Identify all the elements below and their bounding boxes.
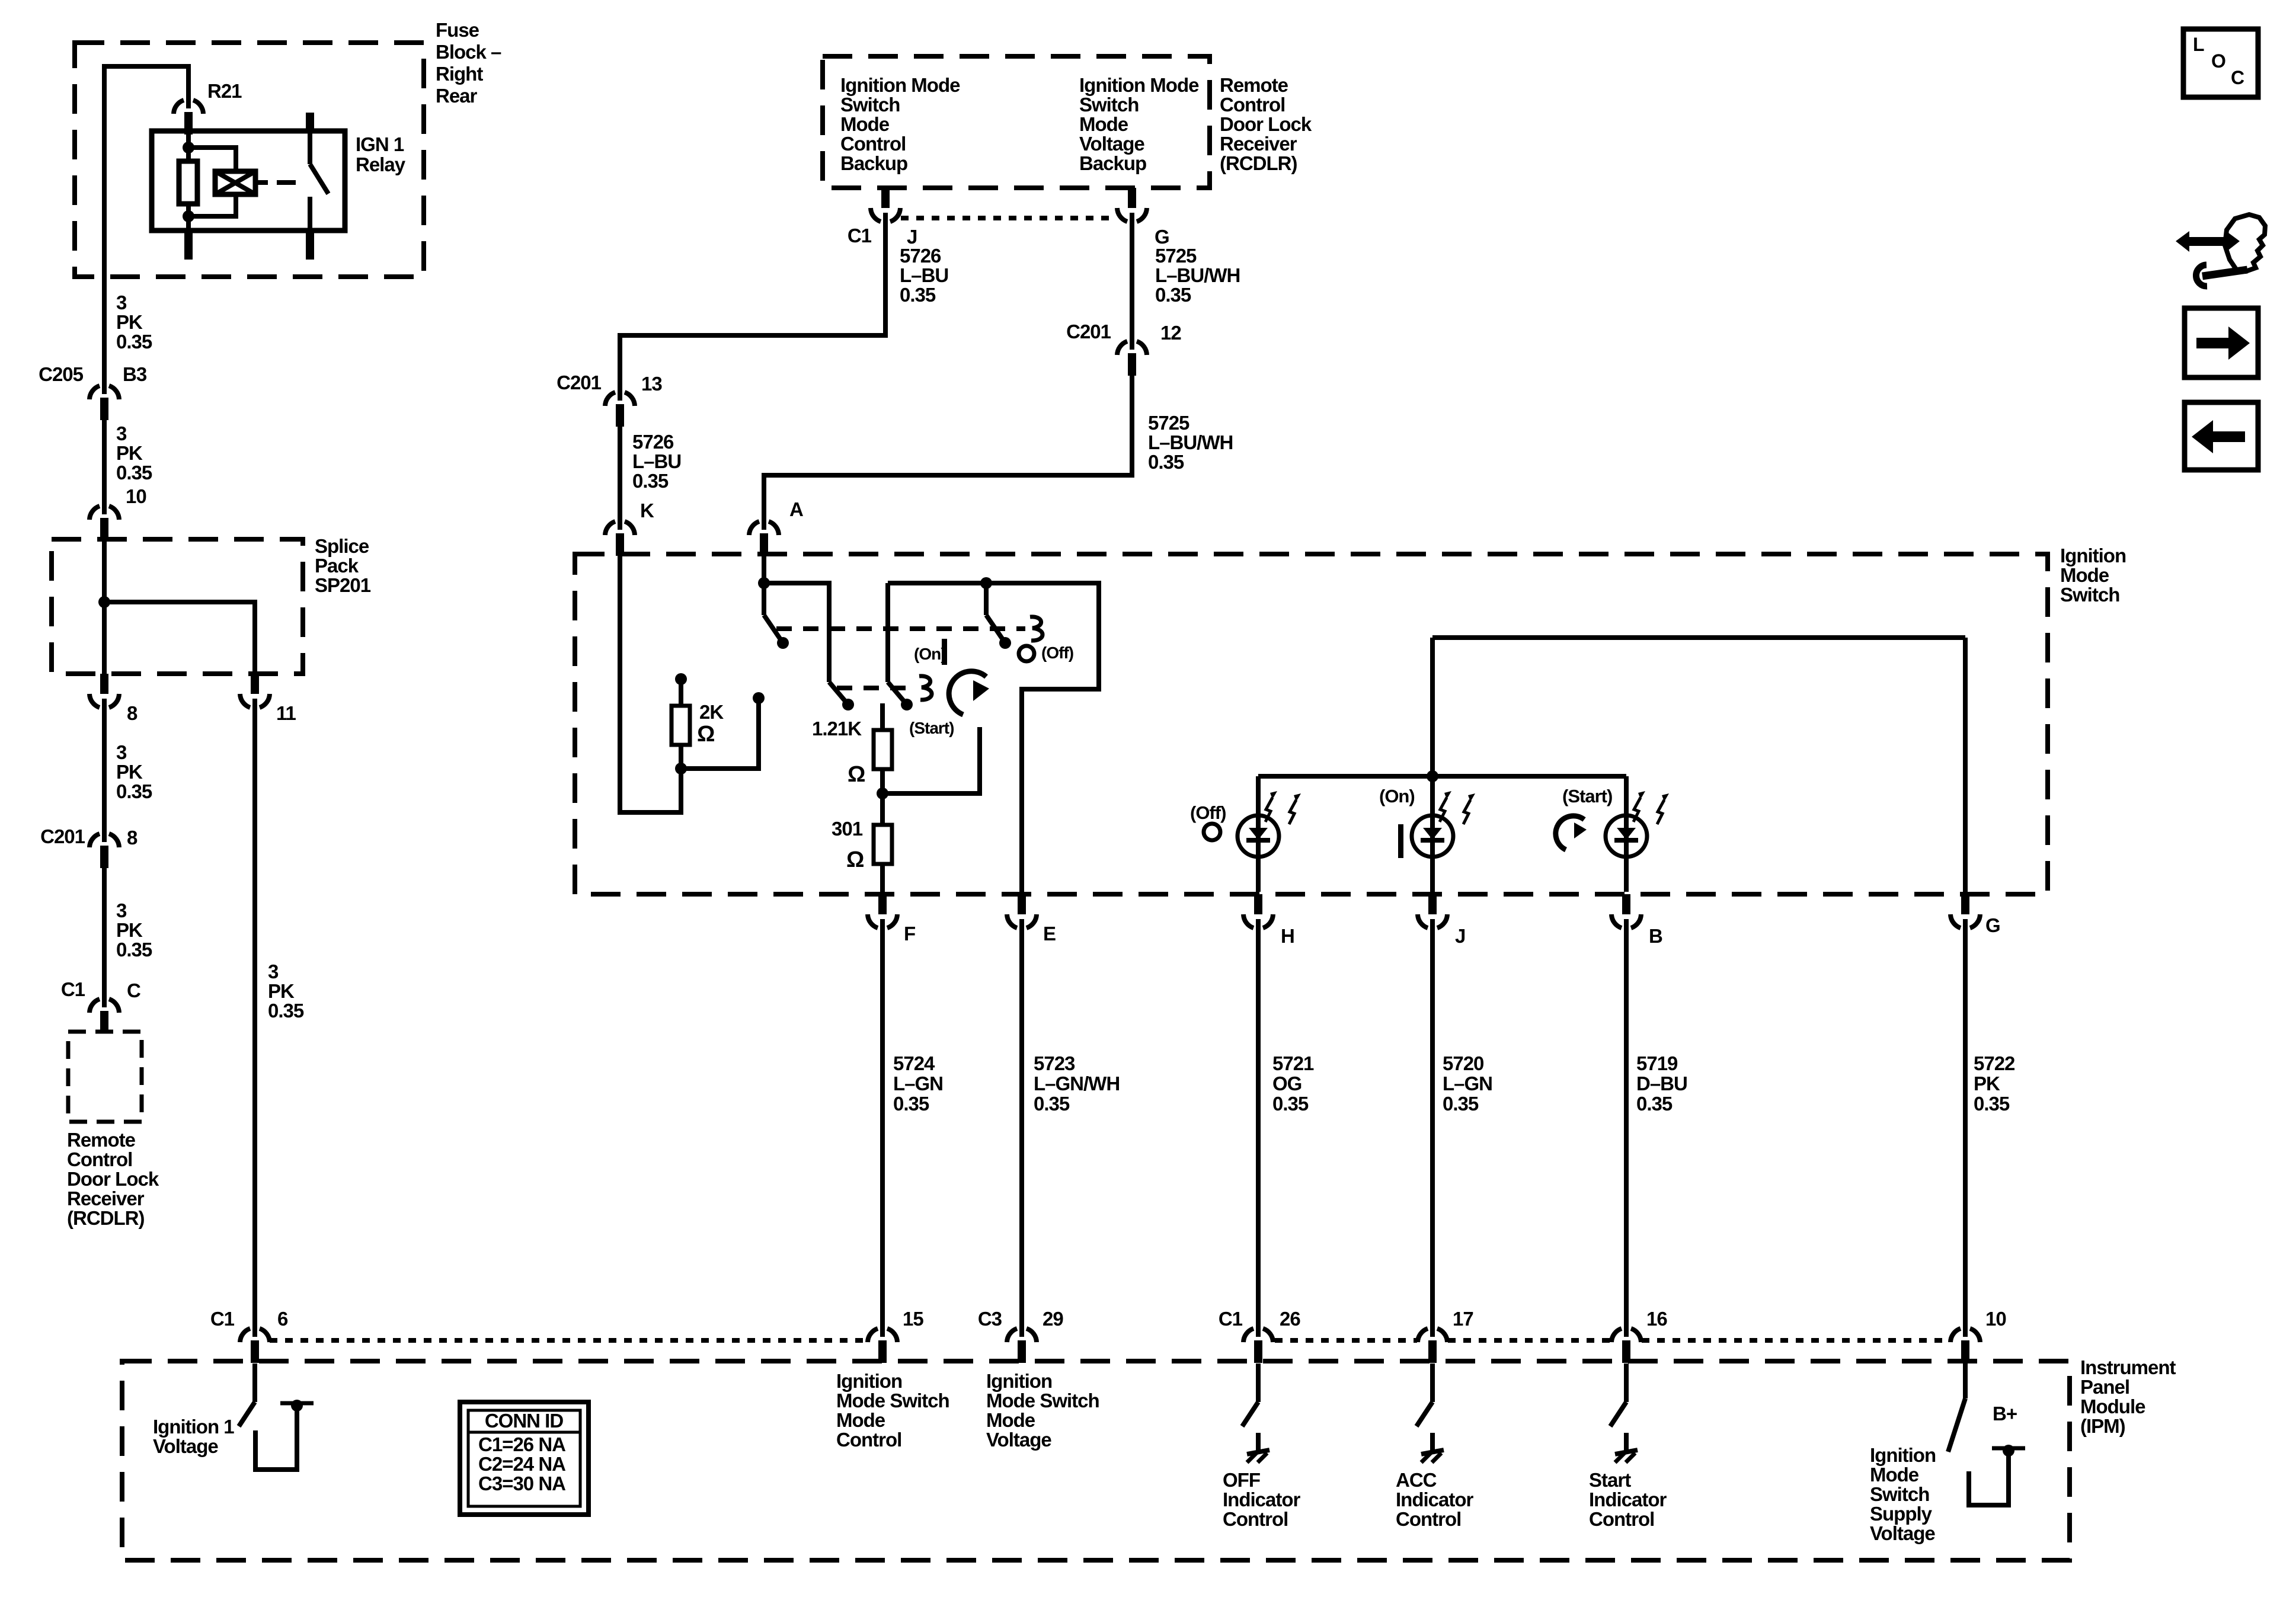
connector C1 pin 26 (IPM) — [1243, 1329, 1253, 1342]
connector pin E — [1018, 894, 1026, 914]
wire into fuse R21 — [186, 64, 191, 101]
svg-text:0.35: 0.35 — [116, 780, 152, 802]
connector pin K (ignition mode switch) — [605, 521, 615, 535]
resistor 2K — [671, 706, 690, 745]
svg-text:L–BU: L–BU — [900, 264, 948, 286]
svg-text:26: 26 — [1280, 1308, 1300, 1330]
svg-text:Ignition: Ignition — [2060, 545, 2126, 566]
svg-text:C1: C1 — [848, 225, 872, 247]
svg-text:Control: Control — [67, 1148, 132, 1170]
svg-text:L–BU/WH: L–BU/WH — [1148, 431, 1233, 453]
connector C201 pin 8 — [89, 834, 100, 847]
svg-text:8: 8 — [127, 702, 137, 724]
wire G leg down — [1963, 638, 1968, 892]
svg-text:0.35: 0.35 — [1148, 451, 1184, 473]
svg-text:5721: 5721 — [1272, 1052, 1314, 1074]
svg-text:OFF: OFF — [1223, 1469, 1260, 1491]
svg-text:Backup: Backup — [840, 152, 907, 174]
svg-text:(RCDLR): (RCDLR) — [1220, 152, 1297, 174]
svg-text:L: L — [2193, 34, 2204, 55]
svg-text:0.35: 0.35 — [116, 939, 152, 961]
svg-text:B3: B3 — [123, 363, 147, 385]
svg-text:PK: PK — [1974, 1073, 2000, 1094]
svg-text:11: 11 — [276, 702, 296, 724]
svg-text:L–GN: L–GN — [1443, 1073, 1492, 1094]
ACC indicator switch arm — [1416, 1402, 1432, 1426]
wire 5724 F to 15 — [880, 926, 885, 1329]
svg-text:Control: Control — [1223, 1508, 1288, 1530]
relay coil armature stub — [255, 180, 268, 185]
svg-text:H: H — [1281, 925, 1294, 947]
2K resistor bottom lead — [679, 745, 683, 769]
wire 5721 H to 26 — [1256, 926, 1261, 1329]
connector C201 pin 13 — [605, 392, 615, 406]
wire from R21 fuse to C205 feed (top horizontal + left vertical) — [104, 66, 188, 386]
svg-text:Receiver: Receiver — [67, 1188, 145, 1209]
mech link lower spring symbol — [919, 676, 932, 700]
svg-text:3: 3 — [268, 961, 279, 982]
svg-text:Voltage: Voltage — [986, 1429, 1051, 1451]
(Off) position circle — [1019, 646, 1034, 661]
relay node bottom junction — [183, 210, 194, 222]
ignition 1 voltage contact dot — [291, 1400, 303, 1411]
LED supply top wire — [1432, 635, 1965, 640]
svg-text:C1=26 NA: C1=26 NA — [478, 1433, 565, 1455]
relay coil bottom branch wire — [188, 193, 236, 216]
svg-text:C2=24 NA: C2=24 NA — [478, 1453, 565, 1475]
Off LED light arrows — [1265, 798, 1272, 822]
ignition 1 voltage contact wire — [255, 1407, 297, 1470]
Start indicator switch wire — [1624, 1363, 1629, 1402]
next-page arrow box — [2185, 308, 2258, 377]
CONN ID table — [460, 1402, 589, 1515]
svg-text:0.35: 0.35 — [116, 331, 152, 353]
svg-text:Mode: Mode — [836, 1409, 885, 1431]
LOC reference box — [2183, 29, 2258, 97]
wire pin 11 to IPM C1-6 — [252, 705, 257, 1329]
svg-text:Instrument: Instrument — [2080, 1356, 2176, 1378]
svg-text:Block –: Block – — [436, 41, 501, 63]
relay pin stub bottom-left — [184, 231, 193, 260]
(Start) LED rotation icon — [1556, 816, 1584, 850]
301 bottom lead to pin F — [880, 864, 885, 892]
connector pin 11 (below splice pack) — [251, 674, 259, 694]
svg-text:Voltage: Voltage — [1870, 1522, 1935, 1544]
wire A junction to arm2 pivot — [764, 583, 829, 682]
svg-text:Mode: Mode — [2060, 564, 2109, 586]
svg-text:5725: 5725 — [1148, 412, 1189, 434]
svg-text:Voltage: Voltage — [1079, 133, 1144, 155]
svg-text:301: 301 — [832, 818, 863, 840]
svg-text:Switch: Switch — [840, 94, 900, 116]
svg-text:PK: PK — [116, 311, 143, 333]
svg-text:Ignition: Ignition — [1870, 1444, 1936, 1466]
wire 2K junction to stationary contact — [681, 700, 759, 769]
(On) LED bar icon — [1398, 824, 1403, 858]
supply voltage switch arm — [1948, 1398, 1965, 1452]
svg-text:C: C — [127, 980, 140, 1001]
svg-text:(RCDLR): (RCDLR) — [67, 1207, 144, 1229]
arm 1 contact dot — [777, 637, 789, 649]
svg-text:5722: 5722 — [1974, 1052, 2015, 1074]
supply voltage switch wire — [1963, 1363, 1968, 1398]
(Off) LED circle icon — [1204, 824, 1220, 840]
svg-text:C1: C1 — [210, 1308, 235, 1330]
Off LED wire — [1256, 776, 1261, 892]
wire pin 8 to C201 — [102, 705, 107, 834]
OFF indicator ground — [1256, 1433, 1261, 1451]
svg-text:PK: PK — [116, 761, 143, 783]
svg-text:E: E — [1043, 923, 1056, 945]
connector pin A (ignition mode switch) — [749, 521, 759, 535]
svg-text:8: 8 — [127, 827, 137, 849]
Start indicator ground — [1624, 1433, 1629, 1451]
wire 5725 from G to C201-12 — [1130, 220, 1134, 342]
svg-text:3: 3 — [116, 292, 127, 313]
relay resistor bottom wire — [186, 204, 191, 231]
svg-text:F: F — [904, 923, 915, 945]
prev-page arrow box — [2185, 402, 2258, 470]
connector pin 10 (IPM) — [1950, 1329, 1961, 1342]
connector C201 pin 12 — [1117, 341, 1127, 355]
wire A into switch — [762, 554, 766, 583]
svg-text:0.35: 0.35 — [1443, 1093, 1479, 1115]
IPM connector dotted line (C1 right a) — [1275, 1338, 1417, 1343]
svg-text:Mode: Mode — [1079, 113, 1128, 135]
svg-text:L–BU/WH: L–BU/WH — [1155, 264, 1240, 286]
svg-text:Voltage: Voltage — [153, 1435, 218, 1457]
fuse R21 connector — [174, 100, 184, 114]
resistor 1.21K — [874, 730, 892, 769]
LED rail junction — [1427, 770, 1438, 782]
svg-text:Indicator: Indicator — [1396, 1489, 1474, 1510]
svg-text:(On): (On) — [914, 645, 946, 663]
svg-text:Mode: Mode — [840, 113, 890, 135]
svg-text:PK: PK — [268, 980, 295, 1002]
svg-text:C3: C3 — [978, 1308, 1002, 1330]
svg-text:Rear: Rear — [436, 85, 478, 107]
svg-text:C201: C201 — [557, 372, 602, 393]
OFF indicator switch wire — [1256, 1363, 1261, 1402]
svg-text:Relay: Relay — [356, 153, 406, 175]
svg-text:10: 10 — [126, 485, 146, 507]
RCDLR backup box (dashed) — [823, 56, 1210, 188]
svg-text:10: 10 — [1985, 1308, 2006, 1330]
svg-text:Control: Control — [1589, 1508, 1654, 1530]
connector pin 15 (IPM) — [868, 1329, 878, 1342]
hand/wrench icon — [2225, 215, 2265, 271]
LED anode rail — [1258, 774, 1626, 779]
svg-text:(Off): (Off) — [1190, 802, 1226, 823]
Off indicator LED — [1237, 815, 1279, 857]
svg-text:R21: R21 — [207, 80, 242, 102]
switch arm 3 (mode voltage) — [888, 682, 907, 705]
wire 5726 to pin K — [618, 425, 622, 522]
svg-text:5720: 5720 — [1443, 1052, 1483, 1074]
wire 5723 E to 29 — [1019, 926, 1024, 1329]
Start indicator switch arm — [1610, 1402, 1626, 1426]
wire 5719 B to 16 — [1624, 926, 1629, 1329]
svg-text:3: 3 — [116, 741, 127, 763]
svg-text:15: 15 — [903, 1308, 923, 1330]
connector pin 8 (below splice pack) — [100, 674, 108, 694]
connector pin B — [1622, 894, 1630, 914]
connector C1 pin 6 (IPM) — [240, 1329, 250, 1342]
svg-text:O: O — [2211, 50, 2225, 72]
svg-text:SP201: SP201 — [315, 574, 371, 596]
B+ contact wire — [1969, 1453, 2009, 1505]
On LED wire — [1430, 776, 1435, 892]
svg-text:0.35: 0.35 — [632, 470, 669, 492]
svg-text:Switch: Switch — [1870, 1483, 1929, 1505]
svg-text:Ignition Mode: Ignition Mode — [840, 74, 960, 96]
svg-text:CONN ID: CONN ID — [485, 1410, 564, 1432]
resistor 301 — [874, 825, 892, 864]
svg-text:(Start): (Start) — [909, 719, 954, 737]
Start LED wire — [1624, 776, 1629, 892]
switch arm 2 (mode control) — [829, 682, 848, 705]
wire 5720 J to 17 — [1430, 926, 1435, 1329]
svg-text:C: C — [2231, 67, 2244, 88]
svg-text:L–GN/WH: L–GN/WH — [1034, 1073, 1120, 1094]
svg-text:B+: B+ — [1993, 1403, 2017, 1425]
connector C205 pin B3 — [89, 386, 100, 399]
svg-text:Indicator: Indicator — [1589, 1489, 1667, 1510]
connector pin F — [878, 894, 887, 914]
svg-text:Mode: Mode — [1870, 1464, 1919, 1486]
ignition mode switch box (dashed) — [575, 554, 2048, 894]
Off switch pivot wire — [984, 583, 989, 615]
svg-text:Switch: Switch — [2060, 584, 2119, 606]
svg-text:Pack: Pack — [315, 555, 359, 577]
svg-text:0.35: 0.35 — [1155, 284, 1191, 306]
svg-text:0.35: 0.35 — [893, 1093, 929, 1115]
relay coil top branch wire — [188, 148, 236, 172]
Start indicator LED — [1606, 815, 1647, 857]
svg-text:Right: Right — [436, 63, 483, 85]
connector pin 16 (IPM) — [1611, 1329, 1622, 1342]
svg-text:Supply: Supply — [1870, 1503, 1933, 1525]
svg-text:Control: Control — [1396, 1508, 1461, 1530]
relay switch contact wire — [308, 197, 312, 231]
B+ contact dot — [2003, 1445, 2014, 1457]
resistor 1.21K top lead — [880, 703, 885, 730]
relay node top junction — [183, 142, 194, 153]
svg-text:C1: C1 — [1219, 1308, 1243, 1330]
connector pin H — [1254, 894, 1262, 914]
svg-text:12: 12 — [1160, 322, 1181, 344]
svg-text:C1: C1 — [61, 978, 85, 1000]
svg-text:3: 3 — [116, 900, 127, 921]
svg-text:0.35: 0.35 — [1034, 1093, 1070, 1115]
IPM connector dotted line (C1 right b) — [1448, 1338, 1611, 1343]
connector C3 pin 29 (IPM) — [1007, 1329, 1017, 1342]
svg-text:0.35: 0.35 — [1974, 1093, 2010, 1115]
svg-text:3: 3 — [116, 422, 127, 444]
svg-text:L–BU: L–BU — [632, 450, 681, 472]
svg-text:Ignition Mode: Ignition Mode — [1079, 74, 1199, 96]
wire loop left leg down — [885, 583, 890, 682]
svg-text:(Off): (Off) — [1041, 644, 1073, 662]
svg-text:0.35: 0.35 — [116, 462, 152, 484]
ignition 1 voltage switch wire — [252, 1363, 257, 1402]
svg-text:Control: Control — [840, 133, 906, 155]
IPM connector dotted line (C1 right c) — [1642, 1338, 1950, 1343]
wire 5726 from J to C201-13 — [620, 220, 885, 393]
mech link dashed upper — [776, 626, 1025, 631]
svg-text:Ω: Ω — [848, 762, 865, 787]
On LED light arrows — [1440, 798, 1447, 822]
IGN 1 relay box — [152, 131, 345, 231]
svg-text:Remote: Remote — [1220, 74, 1288, 96]
svg-text:5726: 5726 — [632, 431, 674, 453]
instrument panel module box (dashed) — [122, 1361, 2070, 1560]
svg-text:Door Lock: Door Lock — [67, 1168, 159, 1190]
wire C205 to pin 10 — [102, 418, 107, 507]
splice pack SP201 (dashed box) — [52, 539, 303, 674]
connector pin G (RCDLR) — [1128, 188, 1136, 208]
svg-text:0.35: 0.35 — [1272, 1093, 1309, 1115]
arm 3 contact dot — [901, 699, 913, 710]
Start LED light arrows — [1633, 798, 1641, 822]
svg-text:Receiver: Receiver — [1220, 133, 1297, 155]
svg-text:1.21K: 1.21K — [812, 718, 862, 740]
wire A junction down — [762, 583, 766, 615]
svg-text:Ignition 1: Ignition 1 — [153, 1416, 234, 1438]
ignition 1 voltage contact bar — [280, 1401, 314, 1406]
relay coil (box with X) — [215, 171, 255, 194]
svg-text:0.35: 0.35 — [268, 1000, 304, 1022]
On indicator LED — [1412, 815, 1453, 857]
wire 5725 to pin A — [764, 374, 1132, 522]
wire top loop to Off switch and E leg — [888, 583, 1099, 892]
svg-text:C205: C205 — [39, 363, 84, 385]
svg-text:Backup: Backup — [1079, 152, 1146, 174]
arm 2 contact dot — [842, 699, 854, 710]
svg-text:(On): (On) — [1379, 786, 1415, 806]
switch arm 1 — [764, 615, 783, 643]
svg-text:Door Lock: Door Lock — [1220, 113, 1312, 135]
svg-text:C201: C201 — [40, 825, 85, 847]
(Start) rotation icon large — [949, 671, 986, 715]
svg-text:Mode Switch: Mode Switch — [836, 1390, 949, 1411]
svg-text:(Start): (Start) — [1562, 786, 1612, 806]
svg-text:A: A — [789, 498, 803, 520]
svg-text:17: 17 — [1453, 1308, 1473, 1330]
Off switch junction — [980, 577, 992, 589]
2K top contact dot — [675, 673, 687, 685]
svg-text:Ω: Ω — [697, 722, 714, 747]
B+ contact bar — [1992, 1446, 2025, 1451]
svg-text:PK: PK — [116, 442, 143, 464]
mech link upper spring symbol — [1030, 617, 1043, 641]
fuse block - right rear (dashed box) — [75, 43, 424, 277]
wire K inside switch to 2K — [620, 554, 681, 812]
svg-text:J: J — [1455, 925, 1465, 947]
2K resistor top lead — [679, 681, 683, 706]
svg-text:IGN 1: IGN 1 — [356, 133, 404, 155]
wire 5722 G to 10 — [1963, 926, 1968, 1329]
Start stationary contact wire — [882, 727, 980, 793]
svg-text:C201: C201 — [1066, 321, 1111, 343]
svg-text:(IPM): (IPM) — [2080, 1415, 2125, 1437]
svg-text:Remote: Remote — [67, 1129, 136, 1151]
1.21K bottom lead — [880, 769, 885, 825]
node A junction — [758, 577, 770, 589]
connector pin G (switch) — [1961, 894, 1969, 914]
svg-text:L–GN: L–GN — [893, 1073, 943, 1094]
svg-text:Splice: Splice — [315, 535, 369, 557]
ignition 1 voltage switch arm — [239, 1402, 255, 1426]
svg-text:16: 16 — [1646, 1308, 1667, 1330]
connector C1 pin C (RCDLR) — [89, 999, 100, 1013]
svg-text:OG: OG — [1272, 1073, 1302, 1094]
1.21K/301 junction — [877, 788, 888, 799]
svg-text:2K: 2K — [699, 701, 724, 723]
IPM connector dotted line (C1 left) — [270, 1338, 866, 1343]
svg-text:13: 13 — [641, 373, 662, 395]
relay switch arm — [310, 164, 328, 194]
Off switch arm — [986, 615, 1005, 643]
svg-text:C3=30 NA: C3=30 NA — [478, 1473, 565, 1494]
RCDLR small dashed box — [68, 1032, 142, 1122]
svg-text:Start: Start — [1589, 1469, 1631, 1491]
svg-text:D–BU: D–BU — [1636, 1073, 1687, 1094]
svg-text:Mode: Mode — [986, 1409, 1035, 1431]
relay resistor — [179, 161, 197, 204]
ACC indicator ground — [1430, 1433, 1435, 1451]
svg-text:5725: 5725 — [1155, 245, 1197, 267]
wire C201-8 to C1-C — [102, 866, 107, 1000]
svg-text:5726: 5726 — [900, 245, 941, 267]
ACC indicator switch wire — [1430, 1363, 1435, 1402]
svg-text:Switch: Switch — [1079, 94, 1139, 116]
connector pin 17 (IPM) — [1418, 1329, 1428, 1342]
svg-text:6: 6 — [277, 1308, 288, 1330]
connector pin J — [1428, 894, 1437, 914]
mech link dashed lower — [837, 686, 914, 690]
svg-text:Ignition: Ignition — [986, 1370, 1052, 1392]
relay coil feed wire — [186, 131, 191, 162]
relay switch common wire — [308, 131, 312, 164]
stationary contact dot (right of 2K) — [753, 692, 765, 704]
LED supply drop — [1430, 638, 1435, 776]
svg-text:5724: 5724 — [893, 1052, 935, 1074]
svg-text:0.35: 0.35 — [1636, 1093, 1673, 1115]
svg-text:Module: Module — [2080, 1395, 2145, 1417]
svg-text:Fuse: Fuse — [436, 19, 479, 41]
svg-text:5723: 5723 — [1034, 1052, 1075, 1074]
relay armature dashed link — [277, 180, 296, 185]
svg-text:29: 29 — [1043, 1308, 1063, 1330]
RCDLR connector dotted line — [901, 216, 1117, 220]
svg-text:0.35: 0.35 — [900, 284, 936, 306]
svg-text:ACC: ACC — [1396, 1469, 1437, 1491]
svg-text:Control: Control — [1220, 94, 1285, 116]
svg-text:Ignition: Ignition — [836, 1370, 902, 1392]
svg-text:G: G — [1985, 914, 2000, 936]
svg-text:K: K — [640, 500, 654, 521]
OFF indicator switch arm — [1242, 1402, 1258, 1426]
svg-text:Control: Control — [836, 1429, 901, 1451]
svg-text:Ω: Ω — [846, 847, 864, 872]
svg-text:PK: PK — [116, 919, 143, 941]
Off arm contact dot — [999, 637, 1011, 649]
svg-text:5719: 5719 — [1636, 1052, 1678, 1074]
svg-text:Mode Switch: Mode Switch — [986, 1390, 1099, 1411]
svg-text:B: B — [1649, 925, 1662, 947]
wire splice input — [102, 539, 107, 674]
